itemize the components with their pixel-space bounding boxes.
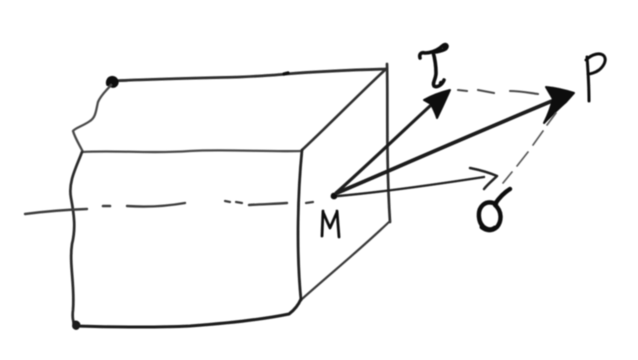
arrow P head — [544, 87, 574, 123]
point M dot — [331, 193, 338, 200]
arrow sigma open head — [470, 168, 497, 189]
centerline dash 4 — [306, 202, 313, 203]
top edge junction blip — [284, 73, 288, 74]
centerline dot pair — [225, 201, 242, 203]
centerline dash 3 — [249, 203, 287, 205]
centerline dot 1 — [103, 205, 110, 208]
top edge start blob — [107, 77, 118, 88]
label M — [322, 211, 339, 237]
dashed line sigma tip to P — [503, 113, 556, 183]
centerline dash 1 — [25, 209, 87, 214]
end face bottom edge — [302, 221, 390, 299]
block top edge — [112, 69, 386, 81]
label tau bottom blob — [439, 81, 443, 85]
dashed line tau tip to P — [458, 90, 538, 94]
block left torn edge upper — [73, 85, 111, 152]
arrow tau head — [424, 90, 450, 118]
arrow P shaft — [337, 101, 552, 193]
front face bottom edge — [76, 299, 301, 327]
label P — [586, 54, 605, 101]
front top edge — [82, 150, 301, 152]
arrow tau shaft — [336, 106, 430, 193]
label sigma — [479, 189, 510, 230]
centerline dash 2 — [127, 203, 185, 207]
front face left torn edge — [70, 152, 82, 325]
label sigma bottom thick — [482, 227, 495, 230]
bottom-left corner blob — [73, 321, 80, 329]
end face right vertical edge — [387, 64, 390, 222]
end face left vertical edge — [298, 150, 302, 300]
label tau — [420, 45, 447, 87]
label tau crest blob — [441, 43, 446, 48]
top face right diagonal edge — [302, 69, 386, 150]
arrow sigma shaft — [338, 177, 484, 196]
